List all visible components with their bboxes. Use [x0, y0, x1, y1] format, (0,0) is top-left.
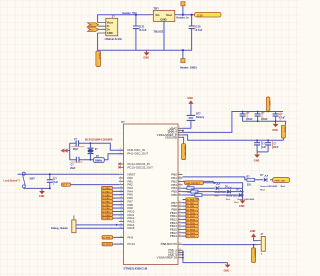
VDDA filter caps: [254, 139, 279, 162]
svg-text:IO_PC13: IO_PC13: [103, 244, 112, 246]
svg-text:PB6: PB6: [171, 193, 177, 197]
svg-text:40: 40: [179, 215, 181, 217]
net label IO_PB12: [183, 231, 199, 235]
svg-text:Green LED 0603: Green LED 0603: [226, 196, 244, 198]
regulator TR1 78L05: [150, 6, 178, 33]
net label IO_PB7: [183, 201, 199, 205]
right net label column: [189, 199, 201, 201]
svg-text:38: 38: [179, 208, 181, 210]
svg-text:Header_GND1: Header_GND1: [180, 67, 197, 70]
resistor R osc series: [94, 158, 105, 163]
svg-text:IO_PA11: IO_PA11: [102, 217, 111, 220]
net label IO_PB13: [183, 221, 199, 225]
svg-text:27: 27: [179, 173, 181, 175]
LED D chain3: [239, 193, 242, 197]
wire PB0 to LED chain: [183, 177, 273, 180]
net label IO_PB15: [183, 228, 199, 232]
net label IO_PB10: [183, 211, 199, 215]
junction at C11 top: [135, 14, 137, 16]
ground under button: [41, 188, 43, 191]
connector J1 USB-B-S-RA: [98, 15, 123, 41]
no-ERC marker PC14: [118, 163, 120, 165]
reset button circuit: [4, 172, 120, 198]
ground under VDDA caps: [256, 152, 258, 155]
svg-text:GND: GND: [224, 270, 230, 273]
svg-text:GND: GND: [239, 205, 245, 208]
svg-text:47: 47: [179, 243, 181, 245]
VSS ground: [182, 250, 231, 272]
capacitor C reset 1uF: [47, 180, 53, 183]
capacitor C4 1uF: [256, 140, 258, 152]
svg-text:D-: D-: [91, 25, 93, 27]
MCU right pin stubs: [178, 127, 183, 258]
svg-text:USB-B-S-RA: USB-B-S-RA: [105, 37, 123, 41]
svg-text:50: 50: [179, 256, 181, 258]
MCU left pin stubs: [119, 148, 124, 244]
net label IO_PH3: [102, 236, 124, 240]
wire BOOT0 row: [183, 244, 258, 246]
net label IO_PC13: [102, 242, 124, 246]
net label IO_PA9: [102, 210, 124, 214]
port D- arrow: [88, 23, 99, 27]
wire VDD rail to cap bank: [183, 112, 284, 133]
svg-text:Green LED 0603: Green LED 0603: [260, 186, 278, 188]
no-ERC marker PC15: [118, 166, 120, 168]
capacitor C1 100nF: [242, 112, 244, 122]
svg-text:Vin: Vin: [155, 13, 160, 17]
ground LED cluster: [242, 199, 244, 200]
wire VBAT to battery: [183, 127, 191, 129]
svg-text:1uF: 1uF: [262, 147, 267, 149]
wire regulator output to 3.3V port: [178, 14, 194, 16]
svg-text:PB13: PB13: [170, 234, 177, 238]
port USB shield vertical: [96, 51, 101, 67]
port D+ arrow: [88, 28, 99, 32]
svg-text:Debug_Header: Debug_Header: [51, 227, 68, 230]
svg-text:30: 30: [179, 183, 181, 185]
wire NRST row: [18, 173, 120, 175]
svg-text:16MHz: 16MHz: [95, 160, 103, 162]
net label IO_PB13: [183, 234, 199, 238]
wire LED1 cathode: [220, 187, 243, 189]
junctions cap bank: [242, 111, 244, 113]
svg-text:9: 9: [120, 183, 121, 185]
svg-text:GND: GND: [39, 195, 45, 198]
wire regulator GND down: [163, 21, 165, 50]
wire PB2 row: [183, 180, 214, 182]
net label USB detect: [183, 181, 243, 188]
wire VDDUSB port stem: [183, 137, 184, 143]
svg-text:BOOT0: BOOT0: [254, 250, 256, 258]
svg-text:U?: U?: [121, 120, 125, 124]
port VDDA vertical right: [281, 125, 286, 140]
wire cap bank bottom rail: [243, 121, 286, 125]
svg-text:43: 43: [179, 225, 181, 227]
net label IO_PB9: [183, 208, 199, 212]
wire common cathode down: [242, 188, 244, 200]
svg-text:IO_1: IO_1: [62, 185, 68, 187]
capacitor C5 10nF: [267, 140, 269, 152]
junction VDD tie: [182, 130, 184, 132]
svg-text:35: 35: [179, 193, 181, 195]
svg-text:Red: Red: [226, 199, 231, 201]
svg-text:Header_In: Header_In: [176, 16, 189, 19]
svg-text:42: 42: [179, 221, 181, 223]
svg-text:PH3: PH3: [128, 235, 134, 239]
svg-text:GND: GND: [254, 160, 260, 163]
svg-text:Header_5V0: Header_5V0: [122, 12, 137, 15]
svg-text:VDDUSB: VDDUSB: [165, 135, 177, 139]
svg-text:7: 7: [120, 173, 121, 175]
wire LED3 cathode: [242, 194, 244, 196]
wire VDDA caps bottom: [257, 151, 268, 153]
svg-text:23: 23: [120, 220, 122, 222]
svg-text:3.3V: 3.3V: [268, 101, 270, 106]
port status LED: [273, 178, 290, 183]
wire Header_GND port stem: [182, 50, 184, 58]
svg-text:49: 49: [179, 253, 181, 255]
capacitor C osc top 20pF: [76, 140, 78, 146]
svg-text:MCXO2016MP-E16000RR: MCXO2016MP-E16000RR: [85, 139, 113, 141]
net label IO_PB12: [183, 218, 199, 222]
svg-text:STM32L432KCU6: STM32L432KCU6: [124, 267, 148, 271]
svg-text:20pF: 20pF: [73, 149, 79, 151]
net label IO_PA2: [102, 186, 124, 190]
svg-text:33: 33: [179, 187, 181, 189]
svg-text:29: 29: [179, 180, 181, 182]
svg-text:Red: Red: [214, 195, 219, 197]
resistor R chain2: [183, 191, 227, 193]
wire Vbus rail from USB to regulator: [98, 15, 150, 23]
svg-text:Battery: Battery: [196, 116, 205, 119]
svg-text:IO_PH3: IO_PH3: [103, 237, 111, 239]
svg-text:PB8-BOOT0: PB8-BOOT0: [161, 242, 178, 246]
net label PA2 left: [62, 183, 120, 187]
svg-text:4.7uF: 4.7uF: [140, 29, 147, 32]
wire C10 top stem: [191, 15, 193, 26]
wire power port stem top right: [182, 6, 184, 15]
net label IO_PB14: [183, 224, 199, 228]
svg-text:4.7uF: 4.7uF: [196, 29, 203, 32]
port VDDUSB vertical: [182, 144, 186, 160]
svg-text:BT?: BT?: [196, 112, 201, 115]
wire VDDA rail: [183, 135, 284, 140]
crystal oscillator network: [60, 139, 123, 170]
wire osc bottom rail: [70, 154, 124, 160]
svg-text:Green LED 0603: Green LED 0603: [214, 192, 232, 194]
resistor R top 220: [247, 178, 255, 181]
net label IO_PA10: [102, 213, 124, 217]
svg-text:PH1-OSC_OUT: PH1-OSC_OUT: [128, 152, 149, 156]
svg-text:Loud.Button??: Loud.Button??: [4, 179, 21, 182]
resistor R chain1: [183, 187, 215, 189]
header J boot: [261, 236, 265, 251]
svg-text:20pF: 20pF: [70, 168, 76, 170]
power port square top right: [181, 2, 185, 6]
capacitor C2 100nF: [257, 112, 259, 122]
resistor R chain3: [183, 194, 238, 196]
svg-text:PC13: PC13: [128, 242, 136, 246]
debug header J2: [51, 216, 124, 233]
net label IO_PA7: [102, 203, 124, 207]
svg-text:Vbus: Vbus: [107, 21, 114, 25]
svg-text:GND: GND: [160, 17, 166, 21]
port VDD vertical above cap bank: [266, 97, 270, 112]
port 3.3V: [195, 12, 221, 17]
junctions VDDA caps: [256, 139, 258, 141]
capacitor C osc bottom 20pF: [76, 157, 79, 163]
junction at power port: [182, 14, 184, 16]
svg-text:TR?: TR?: [153, 6, 159, 10]
svg-text:1uF: 1uF: [54, 181, 59, 184]
capacitor C11 4.7uF: [133, 25, 147, 32]
wire LED2 cathode: [231, 191, 243, 193]
wire C11 vertical: [135, 15, 137, 51]
MCU left pin names: [128, 148, 154, 246]
svg-text:USB_PWR: USB_PWR: [183, 145, 185, 156]
svg-text:IO_PB13: IO_PB13: [187, 236, 196, 238]
svg-text:3.3V: 3.3V: [197, 13, 203, 17]
net label IO_PA8: [102, 206, 124, 210]
wire osc left vertical: [69, 143, 71, 160]
svg-text:45: 45: [179, 231, 181, 233]
svg-text:8: 8: [120, 180, 121, 182]
svg-text:PA15: PA15: [128, 226, 135, 230]
switch SW1: [22, 172, 25, 175]
net label IO_PA11: [102, 217, 124, 221]
svg-text:36: 36: [179, 201, 181, 203]
svg-text:J?: J?: [112, 15, 115, 19]
ground under cap bank: [275, 121, 277, 124]
svg-text:PWR_LED: PWR_LED: [274, 181, 285, 183]
MCU U1 STM32: [121, 120, 178, 271]
junction at 3.3V branch: [191, 14, 193, 16]
capacitor C10 4.7uF: [189, 25, 203, 32]
net label IO_PB6: [183, 198, 199, 202]
svg-text:GND: GND: [107, 31, 113, 35]
LED D chain1: [216, 186, 219, 190]
crystal X1 16MHz: [89, 143, 91, 160]
port BOOT0 vertical: [253, 245, 255, 248]
battery BT1: [187, 97, 205, 129]
capacitor C3 4.7uF: [275, 112, 277, 122]
svg-text:28: 28: [179, 176, 181, 178]
net label IO_PA4: [102, 193, 124, 197]
svg-text:VSSA/VREF_M: VSSA/VREF_M: [157, 256, 178, 260]
svg-text:GND: GND: [250, 230, 256, 233]
decoupling capacitor bank C1 C2 C3: [240, 111, 286, 132]
svg-text:44: 44: [179, 228, 181, 230]
junction at GND port stem: [182, 49, 184, 51]
svg-text:46: 46: [179, 235, 181, 237]
svg-text:41: 41: [179, 218, 181, 220]
net label IO_PB8: [183, 204, 199, 208]
wire osc top rail: [70, 143, 124, 150]
svg-text:Red: Red: [281, 186, 286, 188]
svg-text:Red: Red: [260, 190, 265, 192]
svg-text:6: 6: [120, 176, 121, 178]
ground symbol under regulator rail: [143, 50, 149, 59]
svg-text:10nF: 10nF: [273, 147, 279, 149]
net label IO_PA5: [102, 196, 124, 200]
wire button bottom row: [24, 187, 50, 190]
junction button cap top: [49, 173, 51, 175]
off sheet connector left: [60, 149, 67, 153]
svg-text:GND: GND: [272, 129, 278, 132]
LED D top: [264, 178, 267, 182]
net label IO_PA6: [102, 200, 124, 204]
svg-text:PC15-OSC32_OUT: PC15-OSC32_OUT: [128, 165, 154, 169]
port Header_GND1 square: [180, 59, 197, 70]
svg-text:SW?: SW?: [30, 178, 36, 181]
svg-text:GND: GND: [143, 57, 149, 60]
svg-text:34: 34: [179, 190, 181, 192]
wire GND rail bottom: [98, 29, 192, 51]
svg-text:31: 31: [179, 136, 181, 138]
svg-text:39: 39: [179, 211, 181, 213]
svg-text:Shield: Shield: [98, 53, 100, 60]
svg-text:VDDA: VDDA: [284, 127, 287, 133]
svg-text:37: 37: [179, 205, 181, 207]
net label IO_PA3: [102, 190, 124, 194]
svg-text:Vout: Vout: [166, 13, 172, 17]
svg-text:78L05Z: 78L05Z: [153, 30, 163, 34]
svg-text:GND: GND: [187, 97, 193, 100]
net label IO_PB11: [183, 214, 199, 218]
LED D chain2: [227, 190, 230, 194]
svg-text:D+: D+: [107, 27, 111, 31]
